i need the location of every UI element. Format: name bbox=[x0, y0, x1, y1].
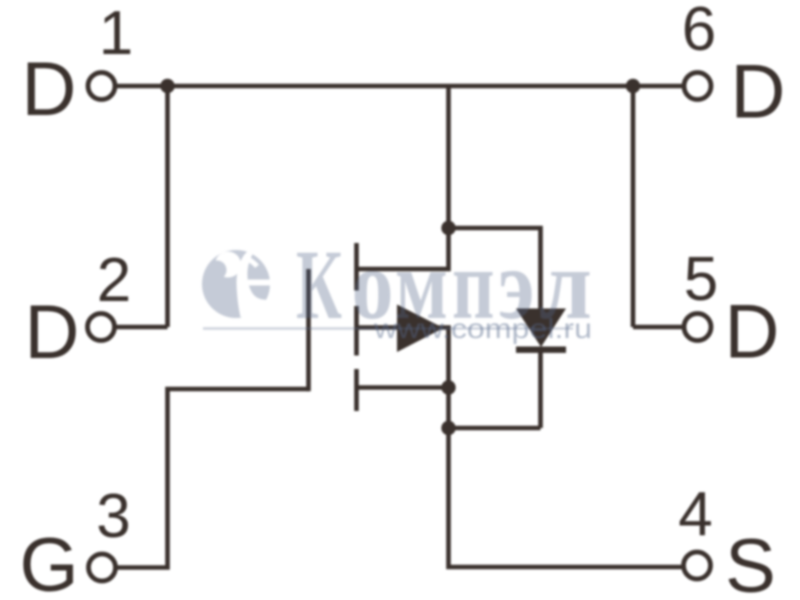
svg-text:К: К bbox=[296, 229, 342, 340]
transistor Q1 channel bar source segment bbox=[354, 369, 359, 411]
svg-text:S: S bbox=[725, 524, 776, 600]
wire body stub to source rail and bottom wire to pin4 bbox=[359, 328, 683, 568]
wire right riser pin5 to top bus bbox=[631, 86, 636, 327]
pin 1 terminal circle bbox=[88, 73, 115, 100]
pin 2 terminal circle bbox=[88, 314, 115, 341]
junction node top-right bbox=[626, 79, 640, 93]
watermark underline bbox=[203, 327, 573, 329]
pin 6 terminal circle bbox=[684, 73, 711, 100]
wire left riser pin2 to top bus bbox=[165, 86, 170, 327]
svg-text:2: 2 bbox=[97, 246, 131, 315]
wire top bus (pin1 to pin6) bbox=[117, 84, 683, 89]
transistor Q1 body arrow bbox=[397, 305, 444, 353]
wire gate feed from pin3 bbox=[118, 389, 309, 568]
pin 3 terminal circle bbox=[89, 554, 116, 581]
svg-text:D: D bbox=[725, 290, 780, 375]
wire center drop from top bus to drain stub bbox=[359, 86, 449, 269]
junction node top-left bbox=[160, 79, 174, 93]
junction node source stub bbox=[441, 380, 455, 394]
wire diode bottom branch bbox=[449, 426, 541, 431]
svg-text:www.compel.ru: www.compel.ru bbox=[373, 313, 592, 344]
junction node diode top tap bbox=[441, 221, 455, 235]
diode D1 cathode bar bbox=[516, 347, 566, 353]
diode D1 cathode lead down bbox=[538, 350, 543, 428]
junction node diode bottom tap bbox=[441, 421, 455, 435]
wire source stub bbox=[359, 385, 449, 390]
transistor Q1 channel bar body segment bbox=[354, 306, 359, 356]
diode D1 anode triangle bbox=[516, 309, 566, 348]
svg-text:D: D bbox=[25, 290, 80, 375]
transistor Q1 channel bar drain segment bbox=[354, 243, 359, 291]
svg-text:D: D bbox=[22, 47, 77, 132]
svg-text:G: G bbox=[19, 523, 78, 600]
svg-text:3: 3 bbox=[96, 482, 130, 551]
svg-text:6: 6 bbox=[682, 0, 716, 64]
pin 4 terminal circle bbox=[684, 552, 711, 579]
svg-text:D: D bbox=[731, 50, 786, 135]
svg-text:1: 1 bbox=[99, 0, 133, 68]
svg-text:5: 5 bbox=[684, 245, 718, 314]
wire pin5 stub bbox=[633, 325, 683, 330]
svg-text:4: 4 bbox=[678, 480, 712, 549]
pin 5 terminal circle bbox=[684, 314, 711, 341]
watermark logo bbox=[202, 229, 592, 340]
transistor Q1 gate electrode bbox=[306, 269, 311, 391]
wire pin2 stub bbox=[116, 325, 168, 330]
wire diode top branch bbox=[449, 228, 541, 309]
